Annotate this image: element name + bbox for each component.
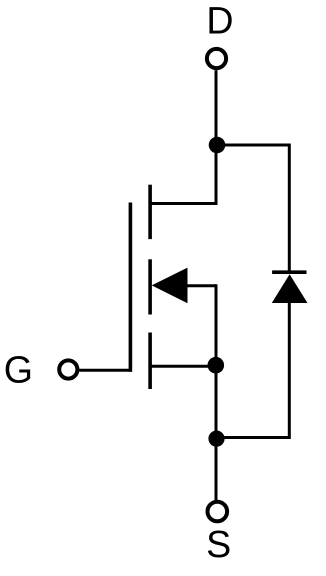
svg-text:D: D [206,0,233,41]
svg-text:S: S [206,523,231,565]
svg-text:G: G [4,349,33,391]
